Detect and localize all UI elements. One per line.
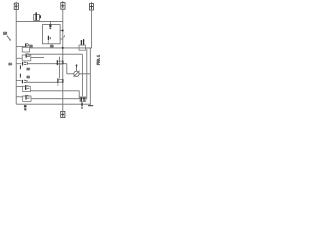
arrow into circle top (76, 64, 78, 71)
svg-text:12: 12 (50, 44, 54, 48)
emitter tick m1 (19, 65, 21, 69)
component X2 on box top (49, 21, 51, 29)
box B1 (42, 25, 60, 44)
svg-text:FIG. 1: FIG. 1 (96, 55, 100, 65)
label 20 area marks (24, 105, 27, 107)
transistor cell Q4 (16, 80, 27, 83)
emitter tick m2 (19, 74, 21, 78)
wire row5 (30, 90, 79, 92)
arrow mark right of rail (64, 35, 65, 37)
transistor QF right upper (79, 39, 86, 50)
transistor cell Q5 (16, 85, 30, 92)
ground bar right (89, 104, 91, 105)
svg-text:14: 14 (9, 62, 13, 66)
wire H3 box to R2 (60, 38, 63, 40)
transistor QI right bottom (80, 97, 86, 102)
terminal T4 bottom (61, 111, 65, 117)
wire row6 (31, 98, 87, 100)
component X1 on top wire (34, 12, 41, 20)
wire row2b short (31, 57, 44, 59)
transistor cell Q1 (16, 43, 29, 52)
transistor QE middle lower (58, 78, 64, 86)
wire H2 box to R2 (60, 30, 63, 32)
wire rail RA right inner (86, 49, 88, 99)
terminal T2 top-middle (61, 1, 65, 9)
wire row2a long to right (30, 53, 83, 55)
svg-text:18: 18 (27, 75, 31, 79)
component X3 inside box (48, 36, 50, 44)
wire bottom long (16, 103, 90, 105)
wire vertical x82 down to QI (81, 54, 83, 96)
wire vertical x66 down to circle row (66, 64, 68, 74)
terminal T3 top-right (90, 2, 94, 10)
svg-text:16: 16 (27, 67, 31, 71)
svg-text:10: 10 (3, 32, 7, 36)
diagonal through circle (74, 71, 80, 77)
junction dot H4xR2 (62, 47, 64, 49)
wire row4 (28, 81, 58, 83)
leader arrow from 10 (7, 36, 11, 40)
junction dot H2 (62, 30, 64, 32)
transistor cell Q2 (16, 54, 31, 61)
wire vertical middle link (58, 57, 60, 79)
transistor QD middle upper (57, 60, 63, 65)
wire QF to R3 (86, 47, 91, 49)
wire row1 H4 (30, 47, 92, 49)
wire row3 (27, 63, 67, 65)
terminal T1 top-left (14, 2, 18, 10)
transistor cell Q6 (16, 95, 31, 102)
wire row5 corner down (79, 91, 86, 98)
emitter marks below QI (81, 102, 83, 106)
wire rail R3 right upper (91, 10, 93, 48)
wire circle row (67, 73, 91, 75)
wire rail R3 right lower (89, 48, 91, 104)
current source circle I1 (74, 71, 79, 76)
transistor cell Q3 (16, 62, 27, 65)
wire rail R2 middle (62, 9, 64, 111)
wire rail R1 left (15, 8, 17, 104)
svg-text:22: 22 (29, 44, 33, 48)
wire H1 top horizontal (16, 20, 63, 22)
